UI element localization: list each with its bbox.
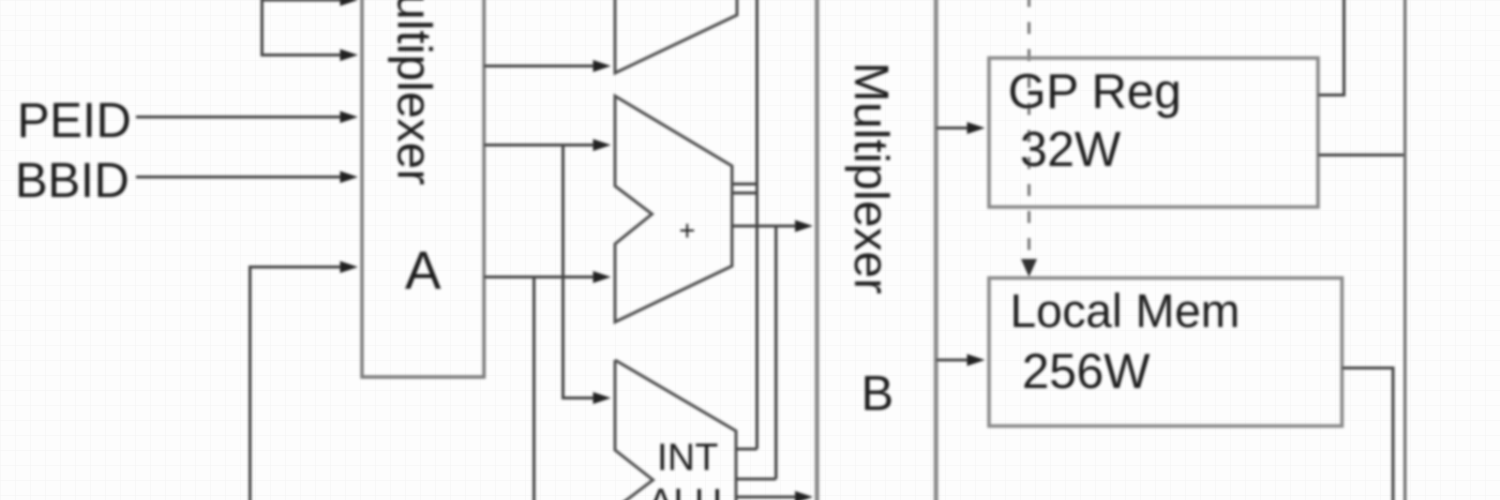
svg-text:32W: 32W [1020, 123, 1122, 177]
svg-text:PEID: PEID [17, 94, 131, 148]
box Multiplexer B right edge [934, 0, 938, 500]
wire Multiplexer B output to Local Mem [936, 359, 972, 362]
arrowhead adder output into Multiplexer B [795, 220, 813, 232]
arrowhead dashed line into Local Mem top [1021, 259, 1037, 277]
arrowhead adder lower input [593, 271, 611, 283]
arrowhead top mux input [593, 60, 611, 72]
svg-text:+: + [679, 215, 695, 246]
wire top-left elbow into Multiplexer A [262, 0, 346, 55]
svg-text:Multiplexer: Multiplexer [387, 0, 440, 185]
arrowhead PEID input [340, 111, 358, 123]
arrowhead GP Reg input [967, 122, 985, 134]
wire INT ALU output to Multiplexer B [736, 496, 800, 499]
wire branch down from adder upper wire to INT ALU [563, 145, 598, 398]
arrowhead INT ALU output into Multiplexer B [795, 491, 813, 500]
dashed control line down to Local Mem [1028, 0, 1031, 258]
box Multiplexer A [362, 0, 484, 377]
svg-text:BBID: BBID [15, 154, 129, 208]
box GP Reg [989, 58, 1318, 207]
wire PEID to Multiplexer A input [136, 116, 346, 119]
wire bottom-left long elbow into Multiplexer A [250, 267, 346, 500]
wire GP Reg right edge up to top (elbow) [1318, 0, 1344, 95]
INT ALU left edge and notch [615, 360, 653, 500]
svg-text:Local Mem: Local Mem [1010, 284, 1240, 337]
svg-text:INT: INT [657, 437, 718, 479]
wire adder output to Multiplexer B [732, 225, 800, 228]
arrowhead BBID input [340, 171, 358, 183]
arrowhead INT ALU upper input [593, 392, 611, 404]
wire Multiplexer B output to GP Reg [936, 127, 972, 130]
INT ALU shape (cut at bottom) [615, 360, 736, 500]
svg-text:A: A [405, 241, 441, 301]
wire Multiplexer A output to adder upper input [484, 144, 598, 147]
svg-text:B: B [861, 367, 894, 421]
box Local Mem [989, 278, 1342, 426]
stub wire INT ALU right edge to adder-output branch [736, 478, 776, 481]
arrowhead Local Mem input [967, 354, 985, 366]
adder ALU shape [615, 96, 732, 322]
svg-text:256W: 256W [1022, 345, 1151, 399]
vertical wire from adder output line down to INT ALU stub [775, 226, 778, 479]
wire Multiplexer A output to top mux [484, 65, 598, 68]
arrowhead top edge input [340, 0, 358, 6]
vertical bus wire left [756, 0, 759, 449]
stub wires adder right edge to vertical bus [733, 183, 757, 186]
mux shape top (cut at top edge) [615, 0, 737, 73]
arrowhead adder upper input [593, 139, 611, 151]
arrowhead top-left elbow input [340, 49, 358, 61]
svg-text:Multiplexer: Multiplexer [844, 62, 897, 294]
far right vertical bus wire [1404, 0, 1407, 500]
wire top edge into Multiplexer A [262, 0, 344, 2]
wire GP Reg right edge to far-right bus [1318, 154, 1405, 157]
stub wire INT ALU right edge to vertical bus [736, 448, 757, 451]
svg-text:ALU: ALU [648, 482, 722, 500]
wire BBID to Multiplexer A input [136, 176, 346, 179]
box Multiplexer B left edge [815, 0, 819, 500]
svg-text:GP Reg: GP Reg [1008, 65, 1181, 119]
arrowhead bottom-left input [340, 261, 358, 273]
wire Local Mem right edge down to bottom (elbow) [1342, 368, 1393, 500]
wire Multiplexer A output to adder lower input [484, 276, 598, 279]
wire branch down from adder lower wire [533, 277, 536, 500]
